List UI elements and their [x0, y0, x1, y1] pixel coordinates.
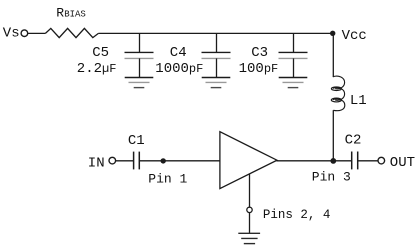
- wire amplifier output to Pin 3 node: [277, 160, 352, 162]
- svg-text:C2: C2: [345, 133, 362, 149]
- wire C2 to OUT: [358, 160, 378, 162]
- capacitor C3: [279, 33, 308, 77]
- svg-text:OUT: OUT: [390, 155, 415, 171]
- terminal Pins 2,4: [247, 207, 252, 212]
- wire amplifier to Pins 2,4 terminal: [249, 174, 251, 207]
- node Pin 1: [161, 158, 166, 163]
- capacitor C5: [125, 33, 154, 77]
- svg-text:C4: C4: [170, 45, 187, 61]
- svg-text:Pins 2, 4: Pins 2, 4: [263, 208, 331, 222]
- terminal Vs: [21, 30, 28, 37]
- svg-text:C5: C5: [92, 45, 109, 61]
- op-amp U1 amplifier triangle: [220, 132, 277, 189]
- svg-text:Vcc: Vcc: [342, 28, 367, 44]
- wire IN to C1: [116, 160, 134, 162]
- wire C1 to amplifier: [139, 160, 220, 162]
- node Vcc junction: [330, 31, 335, 36]
- svg-text:BIAS: BIAS: [64, 10, 86, 20]
- wire Vs to RBIAS: [28, 32, 46, 34]
- svg-text:100pF: 100pF: [239, 61, 279, 77]
- ground (C5): [125, 78, 154, 88]
- svg-text:C3: C3: [251, 45, 268, 61]
- ground (C3): [279, 78, 308, 88]
- terminal OUT: [378, 157, 385, 164]
- ground (C4): [202, 78, 231, 88]
- svg-text:2.2µF: 2.2µF: [77, 61, 117, 77]
- svg-text:Vs: Vs: [3, 25, 20, 41]
- capacitor C2: [352, 152, 358, 170]
- svg-text:Pin 1: Pin 1: [148, 171, 187, 186]
- capacitor C4: [202, 33, 231, 77]
- resistor RBIAS: [45, 28, 98, 37]
- wire top rail: [98, 32, 332, 34]
- capacitor C1: [134, 152, 140, 170]
- svg-text:C1: C1: [128, 133, 145, 149]
- svg-text:L1: L1: [350, 93, 367, 109]
- ground (Pins 2,4): [238, 233, 260, 243]
- label RBIAS: [56, 6, 86, 21]
- svg-text:Pin 3: Pin 3: [312, 169, 351, 184]
- inductor L1: [331, 76, 345, 111]
- terminal IN: [109, 157, 116, 164]
- wire terminal to ground: [249, 213, 251, 233]
- svg-text:R: R: [56, 6, 64, 21]
- wire Vcc node to L1: [332, 33, 334, 77]
- svg-text:1000pF: 1000pF: [155, 61, 203, 77]
- svg-text:IN: IN: [88, 156, 105, 172]
- wire L1 to Pin 3 node: [332, 110, 334, 161]
- node Pin 3: [330, 158, 336, 164]
